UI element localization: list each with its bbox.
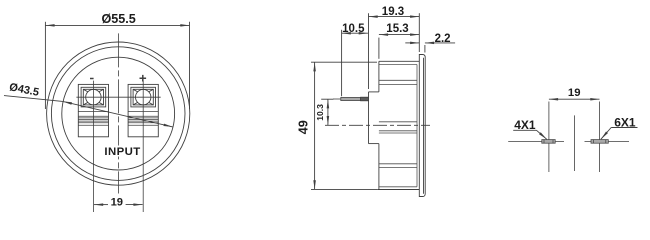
dimension 19 left arrow [549, 98, 558, 101]
right pin centerline vertical [599, 102, 601, 173]
label 6X1 underline [611, 127, 637, 129]
left post corner bevels [83, 89, 103, 105]
extension line shared 19.3/15.3 right [418, 13, 420, 52]
right binding post body [128, 84, 158, 136]
svg-text:19: 19 [111, 197, 123, 209]
dimension 49 bottom extension line [311, 188, 378, 190]
left pin centerline vertical [548, 102, 550, 173]
right post screw circle [136, 89, 151, 104]
left post head outer square [81, 87, 106, 107]
bottom dimension 19 left arrow [94, 203, 103, 206]
left post screw circle [86, 89, 101, 104]
dimension O55.5 right arrow [180, 24, 189, 27]
dimension O55.5 right extension line [189, 22, 191, 109]
INPUT label background gap [104, 146, 142, 157]
dimension 19.3 right arrow [410, 15, 419, 18]
dimension O55.5 line [45, 24, 189, 26]
side view horizontal centerline [325, 124, 430, 126]
dimension 2.2 left line with arrow [405, 42, 419, 44]
dimension 49 top arrow [313, 62, 316, 71]
cup shelf line g [379, 167, 417, 169]
svg-text:2.2: 2.2 [435, 33, 451, 45]
extension line 19.3 left [368, 13, 370, 89]
dimension 10.5 line [342, 32, 368, 34]
dimension 15.3 left extension line [378, 38, 380, 59]
cup shelf line e [379, 132, 417, 134]
horizontal axis line through posts [76, 96, 160, 98]
right pin axis horizontal line [585, 140, 630, 142]
svg-text:Ø55.5: Ø55.5 [101, 12, 135, 26]
flange front face line [423, 58, 425, 194]
cup shelf line b [379, 84, 417, 86]
dimension 10.3 top arrow [327, 99, 330, 108]
plus polarity mark [140, 75, 147, 82]
middle centerline vertical [573, 115, 575, 171]
label 6X1 leader arrow [601, 131, 608, 139]
cup shelf line d [379, 130, 417, 132]
dimension 10.3 bottom arrow [327, 116, 330, 125]
inner circle O43.5 [62, 57, 175, 170]
dimension O55.5 left extension line [44, 22, 46, 109]
bottom dimension 19 line left segment [94, 204, 108, 206]
vertical centerline [117, 33, 119, 193]
dimension 19 right arrow [590, 98, 599, 101]
dimension 19 line [549, 98, 600, 100]
svg-text:10.3: 10.3 [315, 104, 325, 121]
dimension 2.2 right line with arrow [425, 42, 455, 44]
label 6X1 leader [601, 128, 611, 140]
dimension O43.5 right arrow [163, 124, 172, 127]
cup body left face upper [378, 61, 380, 92]
bottom dimension 19 right arrow [133, 203, 142, 206]
right pin 6x1 body [591, 140, 608, 144]
cup shelf line c [379, 121, 417, 123]
dimension O43.5 left arrow [63, 101, 72, 104]
pin crimp section [361, 97, 369, 101]
left pin axis horizontal line [508, 140, 564, 142]
dimension 2.2 right extension line [424, 45, 426, 53]
right post spring block lines [128, 112, 158, 126]
minus polarity mark [90, 78, 94, 80]
terminal bump left face [368, 92, 370, 144]
right post corner bevels [133, 89, 153, 105]
dimension 49 bottom arrow [313, 180, 316, 189]
dimension 10.3 top extension tick [321, 98, 333, 100]
svg-text:10.5: 10.5 [342, 23, 365, 35]
dimension 10.3 dim line [327, 99, 329, 125]
dimension 19.3 left arrow [369, 15, 378, 18]
left binding post body [78, 84, 108, 136]
cup body top inner edge [379, 64, 417, 66]
bottom dimension 19 line right segment [126, 204, 143, 206]
dimension 15.3 line [379, 34, 419, 36]
dimension 10.5 left extension line [341, 30, 343, 96]
label 4X1 leader [537, 130, 547, 139]
svg-text:15.3: 15.3 [386, 23, 408, 35]
cup body left face lower [378, 144, 380, 190]
pin lead line [333, 98, 341, 100]
flange disc [419, 55, 425, 197]
dimension 10.5 right arrow [359, 32, 368, 35]
dimension O55.5 left arrow [45, 24, 54, 27]
left post head inner square [83, 89, 103, 105]
svg-text:INPUT: INPUT [104, 146, 140, 158]
dimension 49 top extension line [311, 61, 377, 63]
label 4X1 leader arrow [539, 132, 547, 139]
left post spring block lines [78, 112, 108, 126]
right post head outer square [131, 87, 156, 107]
terminal bump bottom edge [369, 143, 379, 145]
right post vertical centerline / extension [142, 81, 144, 212]
cup shelf line a [379, 79, 417, 81]
label 4X1 underline [513, 129, 536, 131]
cup body top edge [379, 60, 419, 62]
dimension 15.3 left arrow [379, 33, 388, 36]
left pin chamfer lines [544, 140, 553, 144]
svg-text:19: 19 [568, 87, 581, 99]
dimension 15.3 right arrow [410, 33, 419, 36]
right pin chamfer lines [593, 140, 605, 144]
pin body [341, 97, 361, 100]
svg-text:19.3: 19.3 [382, 6, 404, 18]
cup body bottom inner edge [379, 186, 417, 188]
terminal bump top edge [369, 91, 379, 93]
dimension O43.5 leader tail [4, 96, 63, 102]
dimension 49 line [314, 62, 316, 189]
cup inner wall [416, 65, 418, 187]
dimension O43.5 diameter line [63, 101, 173, 127]
outer circle O55.5 [47, 42, 190, 185]
left pin 4x1 body [542, 140, 555, 144]
left post vertical centerline / extension [92, 81, 94, 212]
right post head inner square [133, 89, 153, 105]
cup shelf line f [379, 163, 417, 165]
svg-text:49: 49 [296, 120, 311, 134]
middle circle (flange rim) [51, 47, 185, 181]
cup body bottom edge [378, 189, 420, 191]
dimension 19.3 line [369, 16, 420, 18]
dimension 10.5 left arrow [342, 32, 351, 35]
